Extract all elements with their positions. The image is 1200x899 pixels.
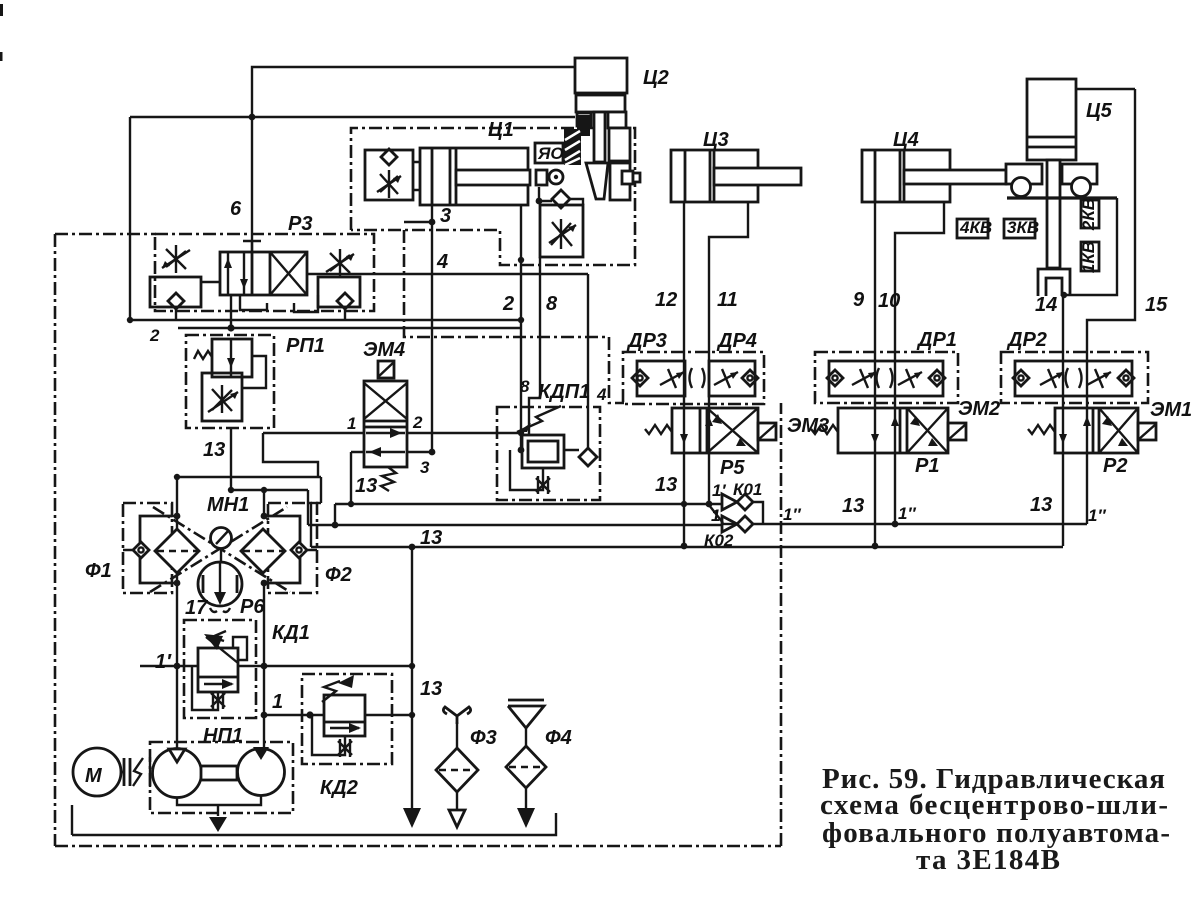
svg-text:1′: 1′ [155,651,172,673]
R1 spring [811,425,838,434]
svg-text:Ц5: Ц5 [1086,100,1113,122]
svg-text:1″: 1″ [1088,506,1106,525]
cylinder C3 left cap line [684,150,687,202]
svg-text:13: 13 [420,527,442,549]
svg-text:1″: 1″ [783,505,801,524]
pump NP1 left pump circle [153,749,202,798]
valve R3 body [220,252,307,295]
svg-text:6: 6 [230,198,242,220]
KDP1 inner box [528,441,558,462]
wire bus 13 right y524 [763,523,1087,525]
RP1 internal flow line [230,339,232,377]
R3 left throttle star [162,245,190,273]
cylinder C3 piston [710,150,714,202]
node at 335,525 [332,522,339,529]
svg-text:2КВ: 2КВ [1079,198,1098,231]
F3 mesh dashed [439,769,475,771]
wire stub y222 [404,221,432,223]
node at 521,260 [518,257,524,263]
right pump suction triangle [253,747,269,760]
svg-text:1КВ: 1КВ [1079,241,1098,273]
EM4 section lines [364,421,407,427]
svg-text:КД2: КД2 [320,777,358,799]
cylinder C4 body [862,150,950,202]
K01-K02 link [753,502,763,524]
svg-text:ДР2: ДР2 [1006,329,1047,351]
svg-text:КДП1: КДП1 [538,381,590,403]
svg-text:1″: 1″ [898,504,916,523]
wire bus 1 y504 to K01 [335,503,723,505]
node at 177,516 [174,513,181,520]
svg-text:ЭМ4: ЭМ4 [363,339,405,361]
wire C5 top link y89 [1077,88,1135,90]
cylinder C1 left cap line [431,148,434,205]
svg-text:ДР3: ДР3 [626,330,667,352]
R3 right throttle box [318,277,360,307]
svg-text:12: 12 [655,289,677,311]
node at 709,504 [706,501,713,508]
wire drain 13 x412 with arrow [411,547,413,812]
svg-text:9: 9 [853,289,865,311]
node at 412,715 [409,712,415,718]
node at 130,320 [127,317,133,323]
node at 412,547 [409,544,416,551]
KD2 drain loop [312,715,345,755]
svg-text:КД1: КД1 [272,622,310,644]
machine boundary dash-dot left edge [54,234,57,846]
R3 right throttle drop to bus [344,309,346,320]
wire line 9 x875 [874,202,876,546]
check valve K02 seat [722,516,737,532]
RP1 spring [194,351,212,359]
limit switch 2KV [1081,200,1099,228]
valve R3 top tick [243,241,261,252]
reducer RP1 main box [212,339,252,377]
RP1 lower throttle box [202,373,242,421]
svg-text:2: 2 [412,413,423,432]
svg-text:Р5: Р5 [720,457,745,479]
R5 dividers [700,408,707,453]
wire bus y477 [177,476,321,478]
C2 right holder [610,163,630,200]
wire bus 1' y666 [140,665,412,667]
solenoid valve EM4 coil tab [378,361,394,378]
F1 bypass check diamond [133,542,149,558]
wire tank corner left [71,805,73,835]
wire line 6 horizontal y117 [130,116,575,118]
svg-text:17: 17 [185,597,208,619]
svg-text:НП1: НП1 [203,725,243,747]
svg-text:11: 11 [717,289,738,311]
wire line 14 x1063 [1062,295,1064,546]
F2 bypass check diamond [291,542,307,558]
R2 dividers [1093,408,1099,453]
wire jog x335 [334,504,336,525]
wire line 6 top: R3 to C2 top [252,67,575,252]
carriage left roller box [1006,164,1042,184]
valve R1 body [838,408,948,453]
pump NP1 right pump circle [238,749,285,796]
node at 264,516 [261,513,268,520]
cylinder C3 rod [714,168,801,185]
node at 177,477 [174,474,180,480]
wire K02 to left bus connection [723,523,737,525]
svg-text:К02: К02 [704,531,734,550]
node at 895,524 [892,521,899,528]
node at 310,715 [306,711,313,718]
cylinder C4 left cap line [874,150,877,202]
DR2 orifice [1066,368,1082,388]
C2 left guide block [577,113,591,126]
wire line x264 F2 to pump [263,490,265,748]
F4 stem lower [525,788,527,808]
reducer RP1 dash-dot enclosure [186,335,274,428]
KDP1 check diamond [579,448,597,466]
solenoid EM1 tab [1138,423,1156,440]
throttle DR2 inner box [1015,361,1132,396]
wire KD2 line y715 [264,714,412,716]
wire riser x311 [310,503,312,547]
R5 spring [645,425,672,434]
wire pressure line x177 [176,477,178,750]
C1 throttle arrowhead [393,176,401,183]
DR4 check diamond [742,370,758,386]
svg-text:ЯО: ЯО [537,144,564,163]
svg-text:13: 13 [842,495,864,517]
valve KDP1 dash-dot enclosure [497,407,600,500]
KD1 adjust zigzag arrow [206,631,238,663]
cylinder C5 rod [1047,160,1060,268]
valve KD2 dash-dot enclosure [302,674,392,764]
C2 right column [609,128,630,161]
wire line 15 x1135 [1087,89,1135,524]
KD1 top-right loop [233,637,247,660]
node at 177,583 [174,580,181,587]
filter F2 solid box [268,516,300,583]
C1 throttle stubs to body [413,162,420,190]
drain arrow x412 [403,808,421,828]
C2 right block upper [608,112,626,128]
limit switch 4KV [957,219,988,238]
node at 539,201 [536,198,543,205]
svg-text:Р6: Р6 [240,596,265,618]
wire line 3 vertical x432 [431,205,433,452]
svg-text:ДР4: ДР4 [716,330,757,352]
cylinder C5 body [1027,79,1076,160]
group boundary dash-dot branch to DR3 [404,230,624,403]
limit switch hatched box 5KV [564,129,581,165]
wire jog y503 [311,502,321,504]
DR1 right check diamond [929,370,945,386]
DR2 right check diamond [1118,370,1134,386]
F3 stem lower [456,792,458,810]
node at 264,490 [261,487,267,493]
svg-text:13: 13 [203,439,225,461]
F4 mesh dashed [509,766,543,768]
svg-text:Ц1: Ц1 [488,119,514,141]
cylinder C1 dash-dot enclosure [351,128,635,265]
svg-text:8: 8 [546,293,558,315]
C1 outlet throttle box [540,205,583,257]
wire riser x351 to bus1 [350,452,352,504]
svg-text:Ц4: Ц4 [893,129,919,151]
throttle DR1 dash-dot enclosure [815,352,958,403]
left pump suction triangle [169,749,185,762]
wire tank line y835 [72,813,556,835]
EM4 X section [364,383,407,419]
check valve K02 diamond [737,516,753,532]
svg-text:1: 1 [347,414,356,433]
wire line 12 x684 [683,202,685,546]
node at 252,117 [249,114,256,121]
filter cross linkage dash-dot diagonal 2 [153,507,290,592]
DR2 throttle arrows [1040,369,1064,388]
wire bus 13 bottom y547 [311,546,1063,548]
C2 holder roller box [622,171,633,184]
valve EM4 body [364,381,407,467]
R2 X section [1099,408,1138,453]
valve KD1 main box [198,648,238,692]
svg-text:4: 4 [436,251,448,273]
node at 264,715 [261,712,268,719]
filter cross linkage dash-dot diagonal 1 [150,507,287,592]
motor coupling [121,758,130,786]
KDP1 closed-throttle mark [536,476,550,494]
RP1 lower throttle arrow [208,385,238,413]
svg-text:4: 4 [596,385,607,404]
machine boundary dash-dot right edge [780,403,783,846]
R2 spring [1028,425,1055,434]
C1 outlet throttle arrowhead [568,225,576,232]
node at 412,666 [409,663,415,669]
pressure gauge MN1 [211,528,232,549]
node at 873,546 [872,543,879,550]
carriage right roller [1072,178,1091,197]
node at 351,504 [348,501,354,507]
svg-text:Р3: Р3 [288,213,312,235]
valve R2 body [1055,408,1138,453]
filter F1 diamond [155,529,199,573]
wire y490 link [231,489,308,491]
KDP1 drain loop [510,450,543,490]
svg-text:М: М [85,765,103,787]
pump drain triangle [209,817,227,832]
svg-text:МН1: МН1 [207,494,249,516]
throttles DR3 DR4 inner boxes [637,361,685,396]
C2 rod [594,112,605,162]
KD2 closed-throttle mark [338,739,352,757]
wire RP1 side riser x263 [263,433,318,477]
svg-text:ЭМ2: ЭМ2 [958,398,1000,420]
svg-text:2: 2 [149,326,160,345]
solenoid EM2 tab [948,423,966,440]
filter F3 diamond [436,748,478,792]
KDP1 ports [521,449,579,451]
svg-text:Р2: Р2 [1103,455,1127,477]
R3 left throttle check diamond [168,293,184,309]
node at 177,666 [174,663,181,670]
cylinder C2 body lower section [576,95,625,112]
R1 dividers [900,408,907,453]
svg-text:4КВ: 4КВ [959,218,992,237]
C1 check connection lines [539,187,583,205]
R5 X section [707,408,758,453]
wire left riser x130 [129,117,131,320]
valve R3 bottom hooks [240,295,318,312]
wire riser x308 [307,490,309,525]
cylinder C1 piston [450,148,456,205]
EM4 spring below [381,467,396,491]
svg-text:Ф1: Ф1 [85,560,112,582]
KD1 divider and arrow [198,676,238,679]
node at 684,546 [681,543,688,550]
F2 mesh dashed line [243,550,283,552]
suction filter F3 fork [443,707,470,724]
R1 left section flow arrows [875,408,895,453]
F1 mesh dashed line [157,550,197,552]
KD1 closed-throttle mark [211,691,225,709]
svg-text:Р1: Р1 [915,455,939,477]
KD2 adjust zigzag arrow [322,681,340,702]
svg-text:К01: К01 [733,480,762,499]
valve R3 left section flow lines [228,252,244,295]
DR4 throttle arrow [714,369,738,388]
node at 432,222 [429,219,436,226]
node at 1064,295 [1061,292,1067,298]
svg-text:13: 13 [420,678,442,700]
wire bus 4 y274 from R3 to KDP1 riser [307,273,588,275]
svg-text:ЭМ3: ЭМ3 [787,415,829,437]
wire riser x321 [320,477,322,503]
DR1 throttle arrows [852,369,876,388]
pump drain manifold [177,795,261,816]
svg-text:13: 13 [355,475,377,497]
filter F2 diamond [241,529,285,573]
DR3 throttle arrow [660,369,684,388]
C2 dresser wedge [586,163,608,199]
svg-text:13: 13 [655,474,677,496]
svg-text:1′: 1′ [712,481,726,500]
svg-text:та 3Е184В: та 3Е184В [916,844,1060,876]
C1 outlet throttle star [549,219,576,249]
carriage left roller [1012,178,1031,197]
valve KD1 dash-dot enclosure [184,620,256,718]
node at 684,504 [681,501,687,507]
DR1 orifice [877,368,893,388]
valve R3 bottom port to RP1 [230,295,232,328]
cylinder C5 piston lines [1027,137,1076,147]
svg-text:ЭМ1: ЭМ1 [1150,399,1192,421]
R3 left throttle drop to bus [175,309,177,320]
R2 left section flow arrows [1063,408,1087,453]
KD2 divider and arrow [324,721,365,724]
C5 fork bridge [1038,269,1070,296]
KD1 drain loop [192,666,218,710]
node at 231,328 [227,324,234,331]
carriage rail line [1007,196,1117,199]
limit switch 3KV [1004,219,1035,238]
cylinder C4 rod [904,170,1006,184]
wire roller frame riser x1117 [1064,198,1117,295]
svg-text:3: 3 [440,205,451,227]
carriage right roller box [1062,164,1097,184]
check valve K01 seat [722,494,737,510]
C1 throttle star [377,170,401,198]
fill funnel F4 [508,700,544,728]
throttle DR1 inner box [829,361,943,396]
pump interconnect [201,766,237,780]
valve R3 dash-dot enclosure [155,234,374,311]
cylinder C4 piston [900,150,904,202]
RP1 feedback loop [242,356,266,388]
svg-text:14: 14 [1035,294,1057,316]
scan smudge top left [0,4,3,16]
svg-text:13: 13 [1030,494,1052,516]
svg-text:Ф4: Ф4 [545,727,572,749]
R1 X section [907,408,948,453]
node at 521,320 [518,317,524,323]
DR1 left check diamond [827,370,843,386]
valve KD2 main box [324,695,365,736]
svg-text:1: 1 [272,691,283,713]
svg-text:РП1: РП1 [286,335,325,357]
filter F4 diamond [506,746,546,788]
cylinder C2 body upper [575,58,627,93]
check valve K01 diamond [737,494,753,510]
throttle DR3-DR4 dash-dot enclosure [623,352,764,404]
DR3-DR4 orifice [690,368,705,388]
svg-text:10: 10 [878,290,900,312]
svg-text:8: 8 [520,377,530,396]
filter F1 dash-dot enclosure [123,503,172,593]
R3 right throttle check diamond [337,293,353,309]
DR3 check diamond [632,370,648,386]
C2 holder tip [633,173,640,182]
machine boundary dash-dot top stub [55,233,156,236]
wire bus y328 RP1 to line2 [178,327,521,329]
wire RP1 drain x231 [230,428,232,490]
R3 left throttle box [150,277,201,307]
wire line 2 vertical x521 C1 rod port down [520,205,522,450]
valve R3 X section [270,252,307,295]
rotor R6 circle [198,562,242,606]
svg-text:ДР1: ДР1 [916,329,957,351]
filter F2 dash-dot enclosure [268,503,317,593]
pump NP1 dash-dot enclosure [150,742,293,813]
wire K02 diagonal feed [709,505,723,523]
C1 throttle check diamond [381,149,397,165]
wire bus 13 left y525 [308,524,723,526]
solenoid EM3 tab [758,423,776,440]
wire line 8 vertical x540 [529,257,540,435]
wire line 4 vertical x588 to KDP1 check [587,274,589,448]
R3 right throttle star [326,249,354,277]
filter F2 port lines [264,516,317,583]
node at 264,583 [261,580,268,587]
cylinder C3 body [671,150,758,202]
cylinder C1 tracer roller [549,170,563,184]
wire EM4 port2 bus y433 [263,432,521,434]
node at 521,450 [518,447,525,454]
valve R5 body [672,408,758,453]
electric motor M [73,748,121,796]
EM4 lower arrows [366,432,405,434]
YaO indicator box [535,143,563,163]
R6 internal arrow [219,563,221,597]
DR2 left check diamond [1013,370,1029,386]
wire bus 2 y320 [130,319,521,321]
cylinder C1 rod [456,170,530,185]
